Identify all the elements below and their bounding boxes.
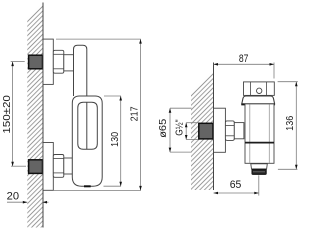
bottom connector cylinder [64, 158, 73, 174]
top escutcheon plate [43, 39, 53, 84]
button on cap [257, 88, 262, 93]
dimension ø65 [157, 108, 192, 152]
knurled outlet ring [252, 169, 266, 174]
riser bar edge visible through cut-out [86, 102, 88, 149]
dimension 136 [278, 82, 298, 170]
faucet body riser bar [74, 45, 87, 96]
head cap (side view) [244, 82, 275, 96]
top union nut [53, 50, 64, 73]
dimension 150±20 [1, 62, 26, 167]
handle inner cut-out [78, 102, 98, 149]
wall face line (right view) [213, 63, 215, 191]
dimension 217 [54, 39, 142, 190]
svg-text:130: 130 [109, 132, 121, 147]
svg-text:136: 136 [284, 116, 296, 131]
outlet taper [251, 164, 267, 169]
wall (right view, hatched) [191, 70, 214, 190]
svg-text:150±20: 150±20 [1, 95, 13, 134]
dimension 130 [104, 96, 123, 186]
svg-text:20: 20 [7, 190, 19, 202]
svg-text:217: 217 [128, 106, 140, 121]
svg-text:ø65: ø65 [157, 119, 169, 138]
handle outer loop [72, 96, 102, 186]
supply pipe (side view) [199, 123, 213, 139]
union nut (side view) [225, 121, 234, 140]
bottom escutcheon plate [43, 143, 53, 191]
top connector cylinder [64, 55, 74, 71]
dimension 87 [214, 53, 275, 78]
dimension 20 (wall thickness) [7, 190, 49, 203]
wall (left view, hatched) [27, 3, 43, 228]
wall face line (left view) [42, 3, 44, 228]
svg-text:65: 65 [230, 179, 242, 191]
bottom union nut [53, 155, 64, 178]
top supply pipe in wall [29, 55, 43, 69]
dimension 65 [214, 175, 259, 195]
escutcheon plate (side view) [214, 108, 226, 152]
dimension G1/2" [175, 119, 198, 139]
spout outlet mark at handle bottom [84, 185, 91, 187]
svg-text:87: 87 [239, 53, 249, 65]
collar ring [242, 96, 275, 104]
svg-text:G½": G½" [175, 119, 186, 136]
connector cylinder (side view) [234, 123, 244, 139]
body (side view) [245, 104, 274, 163]
bottom supply pipe in wall [29, 160, 43, 174]
